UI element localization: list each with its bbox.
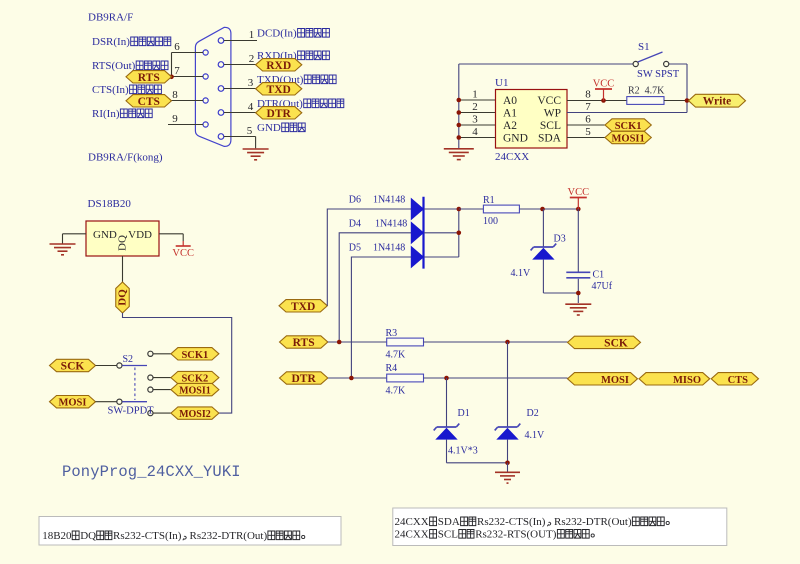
svg-text:Rs232-DTR(Out): Rs232-DTR(Out) <box>554 516 632 528</box>
svg-text:R1: R1 <box>483 195 495 206</box>
junction at RTS pin7 <box>169 75 174 80</box>
svg-text:Rs232-RTS(OUT): Rs232-RTS(OUT) <box>475 529 557 541</box>
junction Write node <box>685 98 690 103</box>
port MOSI2 <box>171 407 219 420</box>
svg-text:100: 100 <box>483 216 498 227</box>
svg-text:SW-DPDT: SW-DPDT <box>108 406 155 417</box>
port Write <box>689 94 746 107</box>
switch S2 throw SCK1 <box>148 351 153 356</box>
switch S2 pole2 blade <box>122 401 147 403</box>
wire pin3 <box>224 88 256 90</box>
ground below DB9 pin5 <box>243 148 269 150</box>
svg-text:DB9RA/F: DB9RA/F <box>88 12 133 24</box>
junction VCC node <box>576 207 581 212</box>
svg-text:DQ: DQ <box>117 289 129 306</box>
wire U1 pin2 <box>459 112 496 114</box>
port SCK right <box>568 336 641 349</box>
svg-text:24CXX: 24CXX <box>395 516 429 528</box>
resistor R3 <box>387 338 424 346</box>
wire pin8 to CTS <box>170 100 203 102</box>
svg-text:DB9RA/F(kong): DB9RA/F(kong) <box>88 152 163 164</box>
svg-text:TXD: TXD <box>267 84 291 96</box>
connector DB9 outline <box>195 27 231 146</box>
wire U1 pin7 WP <box>567 112 687 114</box>
zener D2 <box>498 426 518 428</box>
power VCC main <box>577 198 579 210</box>
svg-text:D6: D6 <box>349 195 361 206</box>
svg-text:MOSI: MOSI <box>58 398 86 409</box>
svg-text:9: 9 <box>172 113 178 125</box>
svg-text:D1: D1 <box>458 408 470 419</box>
svg-text:RI(In): RI(In) <box>92 108 120 120</box>
power VCC at U1 <box>603 89 605 101</box>
svg-text:A2: A2 <box>503 120 517 132</box>
wire U1 left bus <box>458 64 460 148</box>
wire pin2 <box>224 64 256 66</box>
svg-text:1N4148: 1N4148 <box>373 195 405 206</box>
svg-text:MISO: MISO <box>673 375 701 386</box>
resistor R4 <box>387 374 424 382</box>
wire DS18B20 VDD pin <box>159 233 183 235</box>
svg-text:1N4148: 1N4148 <box>373 243 405 254</box>
resistor R1 <box>483 205 519 213</box>
port RTS <box>126 71 172 84</box>
DB9 left pin circles <box>203 50 208 55</box>
svg-text:CTS(In): CTS(In) <box>92 84 129 96</box>
wire D4 cathode <box>424 232 459 234</box>
wire DQ pin down <box>122 256 124 282</box>
svg-text:1N4148: 1N4148 <box>375 219 407 230</box>
svg-text:4.1V: 4.1V <box>525 430 546 441</box>
switch S2 throw SCK2 <box>148 375 153 380</box>
wire D3 stem top <box>542 209 544 247</box>
wire U1 pin5 SDA <box>567 137 605 139</box>
wire R1 to VCC node <box>519 208 578 210</box>
wire pin7 to RTS <box>170 76 203 78</box>
svg-text:GND: GND <box>503 133 528 145</box>
wire DQ tag to MOSI2 <box>123 313 232 413</box>
svg-text:D3: D3 <box>554 234 566 245</box>
svg-text:R4: R4 <box>386 363 398 374</box>
wire pin5 to ground <box>224 136 256 138</box>
svg-text:4.7K: 4.7K <box>386 350 407 361</box>
junction DTR-D5 <box>349 376 354 381</box>
wire pin4 <box>224 112 256 114</box>
svg-text:DQ: DQ <box>117 235 129 251</box>
wire U1 pin3 <box>459 124 496 126</box>
svg-text:MOSI: MOSI <box>601 375 629 386</box>
svg-text:VCC: VCC <box>537 95 561 107</box>
svg-text:SW SPST: SW SPST <box>637 69 680 80</box>
svg-text:A1: A1 <box>503 108 517 120</box>
wire U1 pin4 <box>459 137 496 139</box>
svg-text:D5: D5 <box>349 243 361 254</box>
svg-text:47Uf: 47Uf <box>592 281 613 292</box>
junction RTS-D2 <box>505 340 510 345</box>
junction DTR-D1 <box>444 376 449 381</box>
svg-text:RTS: RTS <box>293 337 315 349</box>
diode D4 <box>411 223 423 244</box>
switch S2 throw MOSI1 <box>148 387 153 392</box>
svg-text:SDA: SDA <box>438 516 460 528</box>
svg-text:D2: D2 <box>527 408 539 419</box>
wire DTR to R4 <box>328 377 387 379</box>
svg-text:24CXX: 24CXX <box>395 529 429 541</box>
wire D5 cathode <box>424 256 459 258</box>
svg-text:SCK: SCK <box>61 361 85 373</box>
port CTS right <box>711 373 758 386</box>
port MOSI right <box>568 373 638 386</box>
junction zener ground node <box>505 461 510 466</box>
svg-text:SDA: SDA <box>538 133 562 145</box>
svg-text:SCK1: SCK1 <box>181 350 208 361</box>
svg-text:DSR(In): DSR(In) <box>92 36 130 48</box>
svg-text:DTR: DTR <box>292 373 317 385</box>
wire TXD up to D6 <box>327 209 411 306</box>
svg-text:4.7K: 4.7K <box>386 386 407 397</box>
switch S1 <box>633 61 638 66</box>
resistor R2 <box>627 97 664 105</box>
svg-text:DS18B20: DS18B20 <box>88 198 132 210</box>
ground at DS18B20 <box>50 243 76 245</box>
wire RTS to R3 <box>328 341 387 343</box>
wire MOSI to switch <box>96 401 117 403</box>
svg-text:6: 6 <box>585 114 591 126</box>
svg-text:24CXX: 24CXX <box>495 151 529 163</box>
svg-text:SCK1: SCK1 <box>615 121 642 132</box>
svg-text:CTS: CTS <box>728 375 749 386</box>
wire U1 pin6 SCL <box>567 124 605 126</box>
wire top bus to S1 <box>459 63 633 65</box>
zener D1 <box>437 426 457 428</box>
port MOSI1 <box>171 383 219 396</box>
wire R4 to MOSI <box>424 377 568 379</box>
wire D5 anode <box>351 257 411 378</box>
wire C1 top <box>577 209 579 272</box>
switch S2 throw MOSI2 <box>148 411 153 416</box>
svg-text:U1: U1 <box>495 77 508 89</box>
svg-text:Rs232-CTS(In): Rs232-CTS(In) <box>477 516 546 528</box>
port RTS mid <box>280 336 328 349</box>
svg-text:5: 5 <box>585 126 591 138</box>
svg-text:WP: WP <box>544 108 561 120</box>
diode cathode bar <box>422 197 424 269</box>
junction diode bus mid <box>457 231 462 236</box>
port SCK left <box>50 359 96 372</box>
wire to SCK2 tag <box>153 377 171 379</box>
note box 2 <box>393 508 727 546</box>
svg-text:DTR: DTR <box>267 108 292 120</box>
svg-text:2: 2 <box>249 53 255 65</box>
svg-text:VCC: VCC <box>593 79 615 90</box>
wire to SCK1 tag <box>153 353 171 355</box>
ic DS18B20 box <box>86 221 159 256</box>
svg-text:C1: C1 <box>593 270 605 281</box>
svg-text:RTS(Out): RTS(Out) <box>92 60 136 72</box>
wire R2 to Write junction <box>664 100 689 102</box>
junction VCC U1 <box>601 98 606 103</box>
svg-text:SCL: SCL <box>540 120 561 132</box>
port SCK1 at U1 <box>605 119 651 132</box>
svg-text:4.1V: 4.1V <box>511 268 532 279</box>
svg-text:MOSI2: MOSI2 <box>179 409 211 420</box>
svg-text:CTS: CTS <box>138 96 160 108</box>
power VCC at DS18B20 (inverted) <box>182 241 184 246</box>
wire C1 bottom <box>577 279 579 303</box>
port MOSI left <box>50 396 96 409</box>
switch S2 pole1 blade <box>122 365 147 367</box>
wire to MOSI2 tag <box>153 412 171 414</box>
port SCK1 <box>171 348 219 361</box>
wire U1 pin8 to R2 <box>567 100 627 102</box>
svg-text:MOSI1: MOSI1 <box>179 386 211 397</box>
svg-text:VCC: VCC <box>172 248 194 259</box>
svg-text:PonyProg_24CXX_YUKI: PonyProg_24CXX_YUKI <box>62 463 241 481</box>
svg-text:DQ: DQ <box>80 530 96 542</box>
port CTS <box>126 95 172 108</box>
svg-text:3: 3 <box>472 114 478 126</box>
svg-text:A0: A0 <box>503 95 517 107</box>
wire D2 stem <box>507 342 509 427</box>
wire D1 stem <box>446 378 448 427</box>
ground below U1 <box>444 148 474 150</box>
junction RTS-D4 <box>337 340 342 345</box>
port DTR <box>256 107 302 120</box>
wire SCK to switch <box>96 365 117 367</box>
wire pin6 <box>172 52 204 54</box>
svg-text:GND: GND <box>257 122 281 134</box>
wire D6 cathode <box>424 208 459 210</box>
wire S1 right to bus <box>669 63 687 65</box>
port MISO right <box>639 373 710 386</box>
svg-text:R2 4.7K: R2 4.7K <box>628 86 665 97</box>
diode D5 <box>411 247 423 268</box>
svg-text:8: 8 <box>172 89 178 101</box>
zener D3 <box>534 246 554 248</box>
svg-text:RTS: RTS <box>138 72 160 84</box>
svg-text:4: 4 <box>248 101 254 113</box>
svg-text:4: 4 <box>472 126 478 138</box>
svg-text:5: 5 <box>247 125 253 137</box>
svg-text:RXD: RXD <box>266 60 291 72</box>
wire D1 D2 bottom <box>446 440 448 463</box>
svg-text:GND: GND <box>93 229 117 241</box>
port RXD <box>256 59 302 72</box>
svg-text:S1: S1 <box>638 41 650 53</box>
svg-text:MOSI1: MOSI1 <box>612 134 645 145</box>
svg-text:Rs232-CTS(In): Rs232-CTS(In) <box>113 530 182 542</box>
ground at C1 <box>565 303 591 305</box>
wire D4 anode <box>339 233 411 342</box>
wire R3 to SCK <box>424 341 568 343</box>
wire to MOSI1 tag <box>153 389 171 391</box>
junctions U1 left bus <box>457 98 462 103</box>
junction D3 node <box>540 207 545 212</box>
svg-text:DCD(In): DCD(In) <box>257 28 297 40</box>
wire U1 pin1 <box>459 99 496 101</box>
port SCK2 <box>171 371 219 384</box>
svg-text:Write: Write <box>703 96 732 108</box>
port DTR mid <box>280 372 328 385</box>
diode D6 <box>411 199 423 220</box>
svg-text:VCC: VCC <box>568 187 590 198</box>
svg-text:SCK: SCK <box>604 337 628 349</box>
port DQ vertical <box>116 282 130 313</box>
svg-text:6: 6 <box>174 41 180 53</box>
svg-text:2: 2 <box>472 101 478 113</box>
wire to R1 <box>459 208 484 210</box>
port TXD <box>256 83 302 96</box>
DB9 right pin circles <box>218 38 224 44</box>
wire zener ground stem <box>507 463 509 472</box>
switch S2 gang dashed link <box>134 368 136 401</box>
capacitor C1 <box>566 271 590 273</box>
svg-text:7: 7 <box>585 101 591 113</box>
svg-text:18B20: 18B20 <box>42 530 72 542</box>
svg-text:7: 7 <box>174 65 180 77</box>
port TXD mid <box>279 300 327 313</box>
svg-text:S2: S2 <box>123 354 134 365</box>
wire pin9 stub <box>168 124 203 126</box>
svg-text:4.1V*3: 4.1V*3 <box>448 446 478 457</box>
svg-text:3: 3 <box>248 77 254 89</box>
svg-text:R3: R3 <box>386 328 398 339</box>
svg-text:8: 8 <box>585 89 591 101</box>
svg-text:D4: D4 <box>349 219 361 230</box>
svg-text:Rs232-DTR(Out): Rs232-DTR(Out) <box>190 530 268 542</box>
port MOSI1 at U1 <box>605 131 651 144</box>
svg-text:TXD: TXD <box>291 301 315 313</box>
svg-text:1: 1 <box>249 29 255 41</box>
junction diode bus top <box>457 207 462 212</box>
svg-text:1: 1 <box>472 89 478 101</box>
wire D3 bottom <box>542 260 544 293</box>
junction C1 ground node <box>576 291 581 296</box>
wire DS18B20 GND pin <box>63 233 87 235</box>
switch S2 pole2 common <box>117 399 122 404</box>
svg-text:SCL: SCL <box>438 529 458 541</box>
note box 1 <box>39 517 341 546</box>
switch S2 pole1 common <box>117 363 122 368</box>
svg-text:VDD: VDD <box>128 229 152 241</box>
wire pin1 <box>224 40 257 42</box>
ic U1 box <box>496 90 568 149</box>
ground at zeners <box>495 471 520 473</box>
